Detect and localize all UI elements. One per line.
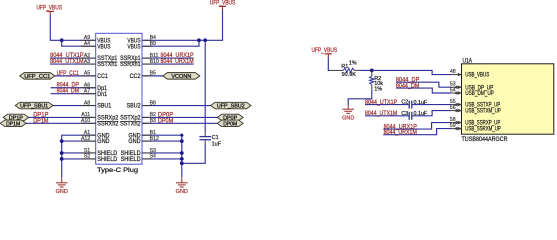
svg-text:8044_UTX1P: 8044_UTX1P [365, 100, 397, 106]
svg-text:C3: C3 [401, 111, 408, 117]
ground (middle) [181, 177, 183, 183]
port DP1P [3, 114, 29, 121]
svg-text:B12: B12 [150, 136, 159, 142]
pin A7 Dn1 (left) [81, 93, 96, 95]
net label 8044_URX1M (B10) with wire [142, 63, 194, 65]
svg-text:A7: A7 [84, 88, 90, 94]
net label 8044_DP (A6) with wire [51, 87, 96, 89]
wire: divider node to U1A pin 48 [372, 70, 451, 74]
svg-text:48: 48 [450, 69, 456, 75]
pin 48 USB_VBUS [451, 74, 462, 76]
ground (right section) [347, 105, 349, 109]
capacitor C1 1uF [204, 133, 206, 136]
node: S1 junction [60, 151, 64, 155]
pin A2 SSTXp1 (left) [81, 57, 96, 59]
svg-text:SSTXn1: SSTXn1 [97, 62, 118, 68]
svg-text:UFP_SBU1: UFP_SBU1 [20, 104, 48, 110]
svg-text:C1: C1 [212, 135, 219, 141]
svg-text:8044_DM: 8044_DM [396, 83, 420, 89]
svg-text:S4: S4 [150, 154, 156, 160]
pin B10 SSRXn1 (right) [142, 63, 152, 65]
wire: B5 CC2 to port VCONN [142, 75, 163, 77]
svg-text:SSTXn2: SSTXn2 [120, 121, 141, 127]
svg-text:90.9K: 90.9K [342, 72, 357, 78]
svg-text:A5: A5 [84, 71, 90, 77]
port UFP_CC1 [20, 73, 55, 80]
node: VBUS divider junction [370, 69, 374, 73]
svg-text:B10: B10 [150, 59, 159, 65]
wire: B3 to port DP0M [142, 122, 217, 124]
pin A11 SSRXp2 (left) [81, 116, 96, 118]
wire: branch to pin A4 [62, 40, 96, 46]
pin B2 SSTXp2 (right) [142, 116, 152, 118]
svg-text:USB_SSRXM_UP: USB_SSRXM_UP [465, 127, 501, 133]
net label 8044_UTX1M (A3) with wire [50, 63, 96, 65]
node: S3 junction [180, 151, 184, 155]
wire: port DP1P to pin A11 [29, 116, 96, 118]
pin B11 SSRXp1 (right) [142, 57, 152, 59]
wire: B4 VBUS to UFP_VBUS (top right) [142, 10, 223, 40]
svg-text:TUSB8044ARGCR: TUSB8044ARGCR [462, 137, 509, 143]
pin 58 USB_SSRXP_UP [451, 122, 462, 124]
pin S3 SHIELD (right) [142, 152, 152, 154]
pin 54 USB_DM_UP [451, 92, 462, 94]
pin A6 Dp1 (left) [81, 87, 96, 89]
svg-text:1uF: 1uF [212, 142, 222, 148]
svg-text:DP1M: DP1M [33, 118, 48, 124]
svg-text:Dn1: Dn1 [97, 92, 107, 98]
svg-text:GND: GND [342, 115, 354, 121]
svg-text:VBUS: VBUS [97, 44, 110, 50]
svg-text:A10: A10 [81, 118, 90, 124]
pin S1 SHIELD (left) [81, 152, 96, 154]
pin A10 SSRXn2 (left) [81, 122, 96, 124]
svg-text:1%: 1% [374, 86, 382, 92]
node: B1 junction [180, 134, 183, 137]
wire: UFP_VBUS to Type-C VBUS pins A9/A4 [50, 15, 95, 40]
net label 8044_DM (A7) with wire [51, 93, 96, 95]
svg-text:GND: GND [97, 139, 110, 145]
wire: C3 to pin 56 [412, 111, 451, 116]
wire: GND bus right (B1 B12 S3 S4) [142, 135, 182, 177]
svg-text:1%: 1% [349, 61, 357, 67]
node: VBUS branch junction [60, 38, 64, 42]
svg-text:8044_UTX1M: 8044_UTX1M [50, 59, 84, 65]
pin A9 VBUS (left) [81, 39, 96, 41]
node: C1 branch junction [203, 38, 207, 42]
node: C1 gnd junction [180, 161, 184, 165]
pin B3 SSTXn2 (right) [142, 122, 152, 124]
svg-text:UFP_SBU2: UFP_SBU2 [217, 104, 245, 110]
pin S4 SHIELD (right) [142, 158, 152, 160]
pin A8 SBU1 (left) [81, 105, 96, 107]
svg-text:8044_DM: 8044_DM [57, 89, 79, 95]
net label 8044_URX1P (B11) with wire [142, 57, 194, 59]
pin B4 VBUS (right) [142, 39, 152, 41]
svg-text:B9: B9 [150, 41, 156, 47]
node: B12 junction [180, 139, 184, 143]
svg-text:DP1M: DP1M [6, 121, 20, 127]
svg-text:SSRXn1: SSRXn1 [120, 62, 141, 68]
svg-text:S2: S2 [84, 154, 90, 160]
svg-text:UFP_VBUS: UFP_VBUS [312, 48, 338, 54]
wire: C2 to pin 55 [412, 104, 451, 106]
wire: R2 to ground [348, 90, 372, 105]
wire: GND bus left (A1 A12 S1 S2) [62, 135, 96, 177]
pin S2 SHIELD (left) [81, 158, 96, 160]
svg-text:USB_DM_UP: USB_DM_UP [465, 91, 494, 97]
net label 8044_UTX1P (A2) with wire [50, 57, 96, 59]
svg-text:DP0M: DP0M [158, 118, 173, 124]
pin 56 USB_SSTXM_UP [451, 110, 462, 112]
svg-text:B3: B3 [150, 118, 156, 124]
net label 8044_UTX1P with wire [365, 104, 409, 106]
port VCONN [163, 73, 200, 80]
pin B12 GND (right) [142, 140, 152, 142]
resistor R1 90.9K 1% [331, 69, 343, 71]
ground (left) [61, 177, 63, 183]
pin B5 CC2 (right) [142, 75, 152, 77]
svg-text:USB_SSTXM_UP: USB_SSTXM_UP [465, 109, 501, 115]
pin A1 GND (left) [81, 134, 96, 136]
pin B1 GND (right) [142, 134, 152, 136]
svg-text:UFP_VBUS: UFP_VBUS [210, 0, 236, 6]
svg-text:8044_UTX1M: 8044_UTX1M [365, 111, 397, 117]
wire: C1 to GND bus [182, 145, 205, 164]
wire: B9 VBUS up to B4 net [142, 40, 199, 46]
resistor R2 10k 1% [371, 70, 373, 76]
svg-text:UFP_CC1: UFP_CC1 [57, 71, 80, 77]
wire: B8 SBU2 to port UFP_SBU2 [142, 105, 211, 107]
svg-text:A3: A3 [84, 59, 90, 65]
port DP1M [0, 120, 26, 127]
svg-text:GND: GND [56, 189, 68, 194]
svg-text:CC2: CC2 [130, 74, 142, 80]
net label 8044_UTX1M with wire [365, 115, 409, 117]
svg-text:SBU1: SBU1 [97, 104, 112, 110]
svg-text:8044_URX1M: 8044_URX1M [384, 130, 417, 136]
net label 8044_URX1P with wire to pin 58 [383, 123, 451, 130]
port DP0P [217, 114, 243, 121]
svg-text:B5: B5 [150, 71, 156, 77]
svg-text:A12: A12 [81, 136, 90, 142]
node: B9 junction [197, 38, 201, 42]
svg-text:DP0M: DP0M [223, 121, 237, 127]
svg-text:GND: GND [176, 189, 188, 194]
svg-text:R1: R1 [341, 64, 348, 70]
port DP0M [217, 120, 243, 127]
svg-text:SBU2: SBU2 [127, 104, 142, 110]
wire: B2 to port DP0P [142, 116, 217, 118]
svg-text:VCONN: VCONN [171, 74, 191, 80]
wire: power down to R1 [328, 58, 331, 71]
pin 55 USB_SSTXP_UP [451, 104, 462, 106]
pin A12 GND (left) [81, 140, 96, 142]
svg-text:C2: C2 [401, 100, 408, 106]
pin A4 VBUS (left) [81, 45, 96, 47]
wire: R1 to junction [360, 69, 372, 71]
svg-text:U1A: U1A [463, 59, 473, 65]
port UFP_SBU2 [211, 102, 251, 109]
node: A12 junction [60, 139, 64, 143]
svg-text:UFP_CC1: UFP_CC1 [24, 74, 50, 80]
wire: port UFP_CC1 to pin A5 [55, 75, 96, 77]
pin 59 USB_SSRXM_UP [451, 128, 462, 130]
pin 53 USB_DP_UP [451, 86, 462, 88]
wire: VBUS down to capacitor C1 [204, 40, 206, 133]
pin B9 VBUS (right) [142, 45, 152, 47]
net label 8044_DP with wire to pin 53 [396, 82, 451, 87]
svg-text:Type-C Plug: Type-C Plug [97, 167, 139, 174]
node: S4 junction [180, 157, 184, 161]
pin B8 SBU2 (right) [142, 105, 152, 107]
connector Type-C Plug body [96, 33, 142, 164]
net label 8044_URX1M with wire to pin 59 [383, 129, 451, 135]
svg-text:A8: A8 [84, 100, 90, 106]
port UFP_SBU1 [15, 102, 53, 109]
node: S2 junction [60, 157, 64, 161]
svg-text:SHIELD: SHIELD [121, 157, 142, 163]
svg-text:GND: GND [128, 139, 141, 145]
IC U1A TUSB8044ARGCR body [462, 64, 554, 134]
wire: port UFP_SBU1 to pin A8 [53, 105, 96, 107]
svg-text:CC1: CC1 [97, 74, 108, 80]
svg-text:A4: A4 [84, 41, 90, 47]
svg-text:VBUS: VBUS [127, 44, 140, 50]
wire: port DP1M to pin A10 [26, 122, 96, 124]
net label 8044_DM with wire to pin 54 [396, 88, 451, 93]
svg-text:B8: B8 [150, 100, 156, 106]
pin A5 CC1 (left) [81, 75, 96, 77]
svg-text:8044_URX1M: 8044_URX1M [161, 59, 194, 65]
pin A3 SSTXn1 (left) [81, 63, 96, 65]
svg-text:USB_VBUS: USB_VBUS [465, 73, 489, 79]
svg-text:SSRXn2: SSRXn2 [97, 121, 119, 127]
svg-text:SHIELD: SHIELD [97, 157, 118, 163]
